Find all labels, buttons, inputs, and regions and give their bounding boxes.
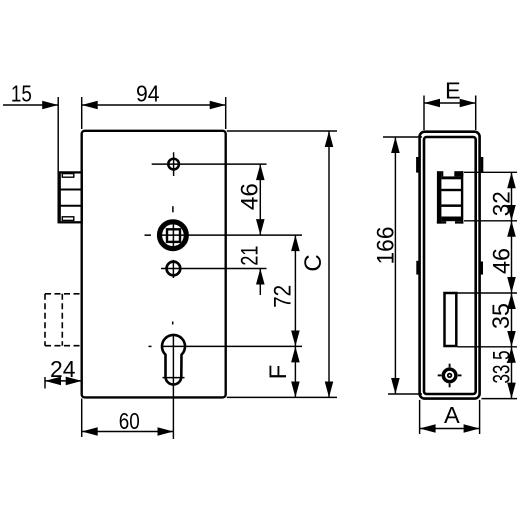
follower extension line: [158, 234, 302, 236]
svg-text:24: 24: [50, 356, 76, 382]
dimension 15: [3, 97, 58, 223]
svg-text:21: 21: [237, 246, 264, 266]
dimension 32 side: [511, 172, 513, 221]
dimension 24: [45, 377, 82, 389]
dimension 60: [82, 399, 174, 438]
extension line bottom edge right: [227, 396, 337, 398]
dimension 94: [82, 97, 226, 129]
side weld lugs: [416, 157, 483, 275]
svg-text:46: 46: [236, 183, 263, 210]
top fixing hole: [152, 152, 267, 176]
svg-text:35: 35: [488, 303, 515, 329]
keyhole vertical centerline / 60 extension: [172, 334, 174, 439]
dimension labels: [11, 78, 516, 435]
dimension E: [424, 96, 476, 131]
dimension F front: [294, 346, 296, 397]
dimension 46 side: [511, 221, 513, 293]
latch bolt side detail: [437, 171, 463, 223]
svg-text:F: F: [265, 365, 292, 380]
svg-text:46: 46: [489, 248, 516, 274]
deadbolt window slot: [445, 293, 457, 346]
svg-text:94: 94: [136, 81, 160, 107]
svg-text:C: C: [300, 254, 327, 271]
svg-text:166: 166: [372, 227, 399, 265]
dimension 46 front: [259, 164, 261, 235]
svg-text:60: 60: [119, 408, 140, 434]
svg-text:A: A: [444, 402, 460, 428]
dimension 166: [383, 137, 422, 394]
dimension 33,5 side: [511, 347, 513, 399]
small hole below follower: [161, 260, 267, 278]
side view outer faceplate profile: [420, 132, 480, 399]
hidden post outline (dashed): [45, 294, 82, 346]
extension line top edge right: [227, 130, 337, 132]
square follower: [160, 222, 187, 249]
lock case front view body: [82, 131, 226, 398]
keyhole extension line: [162, 345, 302, 347]
dimension C front: [328, 131, 330, 397]
svg-text:15: 15: [11, 81, 32, 107]
fixing screw side view: [438, 364, 462, 388]
mounting bracket outline (left side): [60, 172, 82, 222]
svg-text:33,5: 33,5: [489, 351, 516, 384]
svg-text:32: 32: [489, 191, 516, 216]
keyhole centerline ticks: [172, 322, 174, 325]
svg-text:E: E: [445, 78, 461, 104]
follower centerline ticks: [172, 206, 174, 212]
right chain extension lines: [464, 171, 517, 173]
dimension A: [420, 400, 480, 434]
side view inner case profile: [424, 137, 476, 394]
dimension 35 side: [511, 293, 513, 347]
dimension 72 front: [294, 235, 296, 346]
svg-text:72: 72: [270, 285, 297, 308]
euro profile cylinder keyhole: [162, 335, 185, 385]
dimension 21 front (outside arrow below): [259, 269, 261, 296]
